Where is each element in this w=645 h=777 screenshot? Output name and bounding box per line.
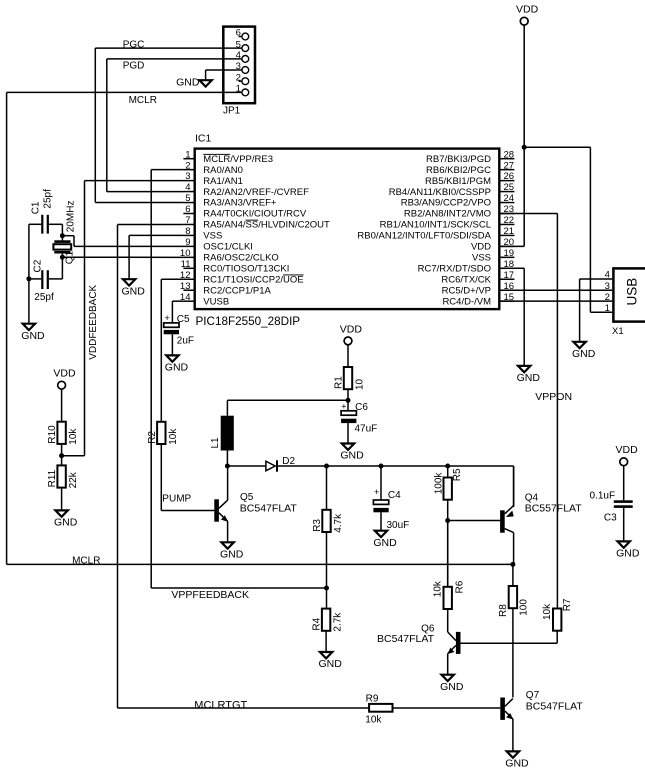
pin 28 RB7/BKI3/PGD [426,149,514,165]
wire OSC2 (crystal bottom -> IC pin10) [62,254,183,258]
wire VDD to IC pin20 [501,245,525,247]
svg-text:10k: 10k [168,428,179,445]
svg-text:RC4/D-/VM: RC4/D-/VM [442,296,491,307]
svg-text:VSS: VSS [472,253,491,264]
svg-text:MCLR/VPP/RE3: MCLR/VPP/RE3 [203,154,273,165]
ground at Q7 emitter [507,751,519,757]
svg-text:2uF: 2uF [177,336,194,347]
wire [447,466,449,478]
svg-text:GND: GND [54,517,78,529]
svg-text:R11: R11 [47,469,58,487]
svg-text:RB4/AN11/KBI0/CSSPP: RB4/AN11/KBI0/CSSPP [389,187,491,198]
wire D- (IC pin15 -> USB pin2) [501,300,613,302]
svg-text:RB3/AN9/CCP2/VPO: RB3/AN9/CCP2/VPO [401,198,491,209]
svg-text:RC1/T1OSI/CCP2/UOE: RC1/T1OSI/CCP2/UOE [203,274,303,285]
wire PUMP net (R2 -> Q5 base) [161,444,214,511]
svg-text:GND: GND [340,450,364,462]
svg-text:25: 25 [504,182,515,193]
inductor L1 [210,400,348,466]
svg-text:RA6/OSC2/CLKO: RA6/OSC2/CLKO [203,253,278,264]
pin 1 MCLR/VPP/RE3 [183,149,273,165]
capacitor C3 0.1uF [590,490,633,541]
svg-text:MCLR: MCLR [129,95,157,106]
svg-text:22k: 22k [68,471,79,488]
svg-text:9: 9 [185,237,190,248]
pin 4 RA2/AN2/VREF-/CVREF [183,182,309,198]
wire IC pin8 VSS to ground [129,235,183,279]
pin 26 RB5/KBI1/PGM [425,171,514,187]
svg-text:BC547FLAT: BC547FLAT [240,502,298,514]
node MCLR/Q4/R8 junction [510,562,515,567]
svg-text:BC547FLAT: BC547FLAT [377,633,435,645]
svg-text:GND: GND [176,76,200,88]
svg-text:VSS: VSS [203,231,222,242]
power VDD (at C3) [616,444,639,500]
node R1/C6/L1 junction [346,398,351,403]
wire [512,564,514,586]
svg-text:IC1: IC1 [195,132,212,144]
svg-text:VDD: VDD [471,242,491,253]
svg-text:GND: GND [122,285,146,297]
wire PGC net [95,40,242,203]
svg-text:3: 3 [605,281,610,292]
svg-text:X1: X1 [612,326,624,337]
resistor R11 22k [57,465,65,487]
resistor R6 10k [433,580,466,609]
svg-text:PUMP: PUMP [162,494,191,505]
svg-text:13: 13 [180,281,191,292]
svg-text:BC557FLAT: BC557FLAT [525,503,583,515]
wire VUSB (IC pin14 -> C5) [172,301,183,323]
wire [61,488,63,511]
capacitor C6 47uF [341,401,377,443]
svg-text:GND: GND [517,372,541,384]
svg-text:RA0/AN0: RA0/AN0 [203,165,243,176]
wire [61,444,63,466]
wire [325,631,327,652]
svg-text:RC2/CCP1/P1A: RC2/CCP1/P1A [203,285,271,296]
svg-text:C4: C4 [388,490,401,501]
svg-text:8: 8 [185,226,190,237]
crystal Q1 20MHz [53,201,76,265]
pin 7 RA5/AN4/SS/HLVDIN/C2OUT [183,215,330,231]
pin 14 VUSB [180,292,229,308]
resistor R1 10 [344,367,352,389]
pin 16 RC5/D+/VP [442,281,515,297]
svg-text:L1: L1 [210,437,221,449]
wire [28,279,30,324]
svg-text:21: 21 [504,226,515,237]
svg-text:VDD: VDD [516,4,539,16]
svg-text:10k: 10k [68,428,79,445]
pin 12 RC1/T1OSI/CCP2/UOE [180,270,304,286]
ground at IC pin8 [123,279,135,285]
pin 22 RB1/AN10/INT1/SCK/SCL [380,215,515,231]
svg-text:24: 24 [504,193,515,204]
svg-text:RB5/KBI1/PGM: RB5/KBI1/PGM [425,176,491,187]
capacitor C5 2uF [164,313,194,355]
resistor R4 2.7k [322,609,330,631]
svg-text:GND: GND [505,758,529,770]
wire [347,388,349,410]
svg-text:R6: R6 [455,580,466,593]
capacitor C1 [29,189,63,234]
svg-text:100: 100 [519,599,530,616]
svg-text:RB1/AN10/INT1/SCK/SCL: RB1/AN10/INT1/SCK/SCL [380,220,491,231]
ground at C4 [375,531,387,537]
svg-text:R7: R7 [562,598,573,611]
wire C1 right down to crystal [61,224,63,241]
svg-text:VDDFEEDBACK: VDDFEEDBACK [88,284,99,359]
svg-text:1: 1 [605,303,610,314]
svg-text:RA2/AN2/VREF-/CVREF: RA2/AN2/VREF-/CVREF [203,187,309,198]
svg-text:10k: 10k [433,580,444,597]
svg-text:27: 27 [504,160,515,171]
wire [227,465,266,467]
svg-text:1: 1 [185,149,190,160]
svg-text:GND: GND [572,348,596,360]
node VDD branch [522,145,527,150]
pin 15 RC4/D-/VM [442,292,514,308]
node L1/Q5/D2 junction [225,464,230,469]
svg-text:RC7/RX/DT/SDO: RC7/RX/DT/SDO [418,264,491,275]
svg-text:C2: C2 [33,259,44,272]
svg-text:25pf: 25pf [34,292,54,303]
pin 27 RB6/KBI2/PGC [426,160,514,176]
node R10/R11 junction [59,453,64,458]
svg-text:10k: 10k [365,715,382,726]
svg-text:20MHz: 20MHz [66,201,77,233]
pin 17 RC6/TX/CK [441,270,514,286]
svg-text:GND: GND [165,362,189,374]
svg-text:RC5/D+/VP: RC5/D+/VP [442,285,491,296]
ground at IC pin18 [518,366,530,372]
connector X1 USB [605,268,645,337]
pin 19 VSS [472,248,514,264]
svg-text:USB: USB [625,278,640,306]
svg-text:R5: R5 [452,468,463,481]
wire [447,500,449,587]
wire [447,521,449,587]
wire OSC1 (crystal top -> IC pin9) [62,236,183,247]
svg-text:RA3/AN3/VREF+: RA3/AN3/VREF+ [203,198,277,209]
svg-text:3: 3 [185,171,190,182]
node rail/C4 [379,464,384,469]
svg-text:6: 6 [185,204,190,215]
svg-text:28: 28 [504,149,515,160]
wire VPP rail [277,466,514,507]
node crystal bottom [60,255,65,260]
svg-text:22: 22 [504,215,515,226]
node rail/R5 [445,464,450,469]
svg-text:+: + [374,487,379,497]
svg-text:VDD: VDD [340,323,363,335]
wire R7 -> Q6 base [461,631,558,644]
svg-text:VPPON: VPPON [535,391,572,403]
svg-text:PIC18F2550_28DIP: PIC18F2550_28DIP [196,315,301,328]
svg-text:BC547FLAT: BC547FLAT [526,701,584,713]
node C1/C2 gnd junction [26,276,31,281]
resistor R7 10k [542,598,573,631]
svg-text:+: + [341,401,346,411]
svg-text:7: 7 [185,215,190,226]
ground at Q6 emitter [442,675,454,681]
svg-text:100k: 100k [434,472,445,495]
transistor Q4 BC557FLAT [500,466,582,564]
pin 5 RA3/AN3/VREF+ [183,193,276,209]
svg-text:GND: GND [440,681,464,693]
svg-text:0.1uF: 0.1uF [590,490,616,501]
resistor R2 10k [157,422,165,444]
wire VPPFEEDBACK (IC pin2 -> R3/R4) [151,170,326,601]
ground at R4 [320,652,332,658]
svg-text:47uF: 47uF [355,423,378,434]
resistor R5 100k [434,468,464,500]
svg-text:RB7/BKI3/PGD: RB7/BKI3/PGD [426,154,491,165]
svg-text:MCLR: MCLR [72,555,100,566]
ground at R11 [55,510,67,516]
pin 24 RB3/AN9/CCP2/VPO [401,193,515,209]
svg-text:Q7: Q7 [526,690,540,701]
connector JP1 [223,27,255,117]
svg-text:5: 5 [185,193,190,204]
ground at C6 [342,444,354,450]
svg-text:PGD: PGD [123,61,145,72]
svg-text:GND: GND [220,549,244,561]
resistor R10 10k [57,422,65,444]
pin 25 RB4/AN11/KBI0/CSSPP [389,182,515,198]
svg-text:R3: R3 [312,519,323,532]
svg-text:25pf: 25pf [42,189,53,209]
svg-text:R2: R2 [147,431,158,444]
svg-text:R4: R4 [312,617,323,630]
pin 9 OSC1/CLKI [183,237,253,253]
capacitor C4 30uF [373,487,409,531]
svg-text:VDD: VDD [616,444,639,456]
svg-text:MCLRTGT: MCLRTGT [194,699,247,711]
svg-text:C3: C3 [604,513,617,524]
svg-text:RA4/T0CKI/CIOUT/RCV: RA4/T0CKI/CIOUT/RCV [203,209,307,220]
transistor Q7 BC547FLAT [500,690,583,752]
power VDD (top) [501,0,539,246]
wire [523,268,525,366]
pin 10 RA6/OSC2/CLKO [180,248,279,264]
pin 6 RA4/T0CKI/CIOUT/RCV [183,204,306,220]
svg-text:10: 10 [355,378,366,390]
power VDD (left) [53,368,76,422]
pin 20 VDD [471,237,514,253]
svg-text:GND: GND [616,548,640,560]
svg-text:RB6/KBI2/PGC: RB6/KBI2/PGC [426,165,491,176]
wire RC1 (IC pin12 -> R2) [161,279,183,422]
wire VPPON net (IC pin23 -> R7) [501,214,573,609]
svg-text:4.7k: 4.7k [333,513,344,533]
capacitor C2 [29,257,63,303]
svg-text:OSC1/CLKI: OSC1/CLKI [203,242,253,253]
wire IC pin18 to ground [501,267,525,269]
wire MCLR net [7,92,513,566]
node crystal top [60,233,65,238]
wire VDDFEEDBACK (junction -> IC pin3) [62,181,184,456]
pin 11 RC0/TIOSO/T13CKI [181,259,290,275]
svg-text:10k: 10k [542,603,553,620]
pin 13 RC2/CCP1/P1A [180,281,272,297]
pin 8 VSS [183,226,222,242]
svg-text:2.7k: 2.7k [333,612,344,632]
svg-text:R1: R1 [334,376,345,389]
svg-text:GND: GND [373,537,397,549]
wire R8 -> Q7 collector [512,608,514,697]
node VPPFEEDBACK junction [324,586,329,591]
op IC1 PIC18F2550 [195,132,500,328]
pin 18 RC7/RX/DT/SDO [418,259,515,275]
svg-text:4: 4 [185,182,190,193]
svg-text:RB2/AN8/INT2/VMO: RB2/AN8/INT2/VMO [404,209,491,220]
svg-text:2: 2 [185,160,190,171]
svg-text:RC0/TIOSO/T13CKI: RC0/TIOSO/T13CKI [203,264,289,275]
ground at C3 [618,541,630,547]
svg-text:C1: C1 [31,201,42,214]
svg-text:RA5/AN4/SS/HLVDIN/C2OUT: RA5/AN4/SS/HLVDIN/C2OUT [203,220,330,231]
svg-text:R9: R9 [366,694,379,705]
svg-text:VUSB: VUSB [203,296,229,307]
svg-text:VPPFEEDBACK: VPPFEEDBACK [171,589,249,601]
wire [380,466,382,500]
svg-text:GND: GND [21,330,45,342]
wire C1 left to gnd rail [28,224,30,279]
transistor Q6 BC547FLAT (mirrored) [377,609,461,675]
pin 21 RB0/AN12/INT0/LFT0/SDI/SDA [357,226,514,242]
svg-text:JP1: JP1 [223,106,241,117]
wire VDD to USB pin1 [524,147,612,312]
pin 3 RA1/AN1 [183,171,243,187]
resistor R3 4.7k [322,510,330,532]
svg-text:GND: GND [319,658,343,670]
node rail/R3 [324,464,329,469]
svg-text:26: 26 [504,171,515,182]
svg-text:RA1/AN1: RA1/AN1 [203,176,243,187]
pin 23 RB2/AN8/INT2/VMO [404,204,515,220]
diode D2 [266,456,296,472]
wire PGD net [107,59,242,192]
svg-text:RC6/TX/CK: RC6/TX/CK [441,274,491,285]
resistor R9 10k [365,694,392,726]
svg-text:17: 17 [504,270,515,281]
svg-text:D2: D2 [282,456,295,467]
ground at Q5 emitter [221,542,233,548]
pin 2 RA0/AN0 [183,160,243,176]
svg-text:R10: R10 [47,425,58,444]
svg-text:11: 11 [181,259,191,270]
svg-text:19: 19 [504,248,515,259]
svg-text:RB0/AN12/INT0/LFT0/SDI/SDA: RB0/AN12/INT0/LFT0/SDI/SDA [357,231,491,242]
wire MCLRTGT net (IC pin7 -> R9 -> Q7 base) [118,224,501,711]
wire [326,466,328,510]
node R5/Q4base/R6 junction [445,518,450,523]
svg-text:VDD: VDD [53,368,76,380]
wire [326,532,328,609]
wire Q4 base [448,520,500,522]
ground at C5 [166,355,178,361]
ground at USB pin4 [573,342,585,348]
transistor Q5 BC547FLAT [214,466,297,542]
wire D+ (IC pin16 -> USB pin3) [501,289,613,291]
wire USB pin4 to ground [580,279,613,342]
svg-text:2: 2 [605,292,610,303]
svg-text:PGC: PGC [123,40,145,51]
svg-text:30uF: 30uF [387,520,410,531]
svg-text:+: + [165,313,170,323]
svg-text:R8: R8 [498,604,509,617]
resistor R8 100 [498,586,529,617]
power VDD (at R1) [340,323,363,367]
ground at JP1 pin 3 [176,70,242,88]
ground at C1/C2 [23,324,35,330]
